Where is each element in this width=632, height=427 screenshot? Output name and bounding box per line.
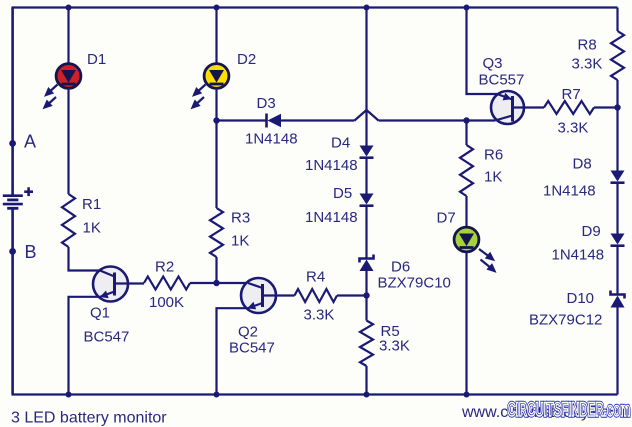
svg-text:BZX79C12: BZX79C12: [529, 312, 602, 329]
wire top rail to D2: [215, 8, 217, 65]
svg-text:R7: R7: [562, 86, 581, 103]
zener diode D6: [360, 255, 374, 272]
battery BT1: [3, 196, 23, 209]
junction dot top rail / D4 column: [364, 5, 370, 11]
svg-text:Q2: Q2: [238, 324, 258, 341]
junction dot bottom rail / Q1 emitter: [66, 392, 72, 398]
wire D6 to R5: [365, 271, 367, 321]
svg-text:1K: 1K: [83, 220, 101, 237]
junction dot bottom rail / Q2 emitter: [214, 392, 220, 398]
resistor R2: [144, 277, 190, 290]
svg-text:1N4148: 1N4148: [552, 247, 605, 264]
junction dot top rail / D1 column: [66, 5, 72, 11]
svg-text:BC547: BC547: [229, 340, 275, 357]
svg-text:R4: R4: [306, 269, 325, 286]
svg-text:1N4148: 1N4148: [245, 131, 298, 148]
svg-text:D9: D9: [582, 223, 601, 240]
diode D9: [611, 234, 625, 246]
svg-text:A: A: [24, 132, 36, 152]
wire junction to R6: [465, 121, 467, 146]
svg-text:D1: D1: [87, 51, 106, 68]
svg-text:BC557: BC557: [479, 72, 525, 89]
D7 emission arrows: [479, 249, 495, 271]
svg-text:D4: D4: [331, 135, 350, 152]
svg-text:D8: D8: [573, 156, 592, 173]
zener diode D10: [611, 291, 625, 308]
wire mid row left (D2 column to D3): [217, 119, 268, 121]
svg-text:D6: D6: [391, 259, 410, 276]
wire left rail lower (battery to bottom rail): [11, 209, 14, 395]
wire D9 to D10: [616, 246, 618, 295]
resistor R7: [544, 101, 594, 114]
svg-text:1K: 1K: [231, 233, 249, 250]
wire R3 to junction: [215, 257, 217, 283]
watermark CIRCUITSFINDER.com: [508, 400, 631, 421]
svg-text:3.3K: 3.3K: [572, 56, 603, 73]
transistor Q2: [241, 278, 295, 313]
diode D3: [267, 114, 282, 128]
wire top rail to D4: [365, 8, 367, 146]
wire right rail top to R8: [616, 8, 618, 32]
transistor Q3: [491, 91, 544, 124]
wire D10 to bottom rail: [616, 308, 618, 395]
LED D7: [454, 227, 479, 252]
wire junction to Q2 collector: [217, 282, 249, 284]
wire D7 to bottom rail: [465, 252, 467, 395]
wire R2 to junction: [190, 282, 217, 284]
svg-text:1N4148: 1N4148: [305, 157, 358, 174]
svg-text:BC547: BC547: [84, 329, 130, 346]
svg-text:D3: D3: [257, 95, 276, 112]
wire left rail upper (top rail to battery): [11, 8, 14, 195]
wire bottom rail: [12, 393, 618, 395]
svg-text:D2: D2: [237, 51, 256, 68]
junction dot bottom rail / D7: [464, 392, 470, 398]
resistor R3: [210, 208, 223, 257]
junction dot top rail / D2 column: [214, 5, 220, 11]
svg-text:3.3K: 3.3K: [304, 307, 335, 324]
resistor R8: [611, 31, 624, 80]
junction dot R7 / right rail: [614, 104, 620, 110]
wire top rail to D1: [67, 8, 69, 65]
resistor R4: [295, 289, 338, 302]
LED D1: [56, 64, 81, 89]
svg-text:CIRCUITSFINDER.com: CIRCUITSFINDER.com: [508, 400, 631, 421]
transistor Q1: [93, 267, 144, 302]
svg-text:R3: R3: [231, 210, 250, 227]
diode D8: [611, 171, 625, 183]
junction dot mid row / R6 / Q3 collector: [463, 117, 469, 123]
wire R6 to D7: [465, 196, 467, 227]
resistor R1: [62, 194, 75, 247]
wire hop over D4 column: [355, 110, 379, 121]
node B: [9, 248, 16, 255]
wire R7 to right rail: [594, 106, 618, 108]
junction dot R2/R3/Q2 collector: [213, 280, 219, 286]
svg-text:BZX79C10: BZX79C10: [378, 275, 451, 292]
svg-text:1K: 1K: [484, 169, 502, 186]
node A: [9, 140, 16, 147]
resistor R5: [360, 321, 373, 367]
wire Q2 emitter to bottom rail: [217, 308, 247, 394]
junction dot top rail / Q3 column: [464, 5, 470, 11]
battery plus sign: [24, 187, 33, 196]
wire R5 to bottom rail: [365, 366, 367, 395]
wire mid row D3 to hop: [280, 119, 355, 121]
D2 emission arrows: [193, 85, 206, 108]
svg-text:D10: D10: [567, 290, 595, 307]
svg-text:D5: D5: [333, 185, 352, 202]
diode D4: [360, 146, 374, 158]
svg-text:1N4148: 1N4148: [543, 183, 596, 200]
svg-text:3.3K: 3.3K: [558, 120, 589, 137]
junction dot bottom rail / R5: [364, 392, 370, 398]
junction dot D3 tap: [213, 117, 219, 123]
svg-text:Q3: Q3: [483, 55, 503, 72]
svg-text:R6: R6: [484, 147, 503, 164]
wire R8 to D8: [616, 80, 618, 171]
wire Q1 emitter to bottom rail: [69, 297, 99, 395]
wire top rail to Q3 emitter: [467, 8, 499, 95]
junction dot R4 tap: [363, 292, 369, 298]
wire mid row hop to Q3 collector: [379, 119, 496, 121]
diode D5: [360, 194, 374, 206]
resistor R6: [460, 145, 473, 196]
svg-text:100K: 100K: [149, 294, 184, 311]
wire D5 to D6: [365, 206, 367, 259]
svg-text:D7: D7: [437, 210, 456, 227]
wire R4 to D6/R5 junction: [337, 294, 367, 296]
wire D2 to R3 (through D3 junction): [215, 88, 217, 208]
svg-text:R1: R1: [82, 196, 101, 213]
D1 emission arrows: [45, 85, 58, 108]
wire D1 to R1: [67, 88, 69, 194]
svg-text:1N4148: 1N4148: [305, 209, 358, 226]
svg-text:B: B: [25, 242, 37, 262]
svg-text:Q1: Q1: [90, 305, 110, 322]
svg-text:R8: R8: [578, 37, 597, 54]
svg-text:3.3K: 3.3K: [379, 338, 410, 355]
wire R1 to Q1 collector: [69, 247, 102, 271]
wire top rail: [12, 6, 618, 8]
svg-text:R2: R2: [155, 259, 174, 276]
wire D4 to D5: [365, 158, 367, 194]
wire D8 to D9: [616, 183, 618, 234]
LED D2: [204, 64, 229, 89]
svg-text:3 LED battery monitor: 3 LED battery monitor: [11, 410, 167, 427]
